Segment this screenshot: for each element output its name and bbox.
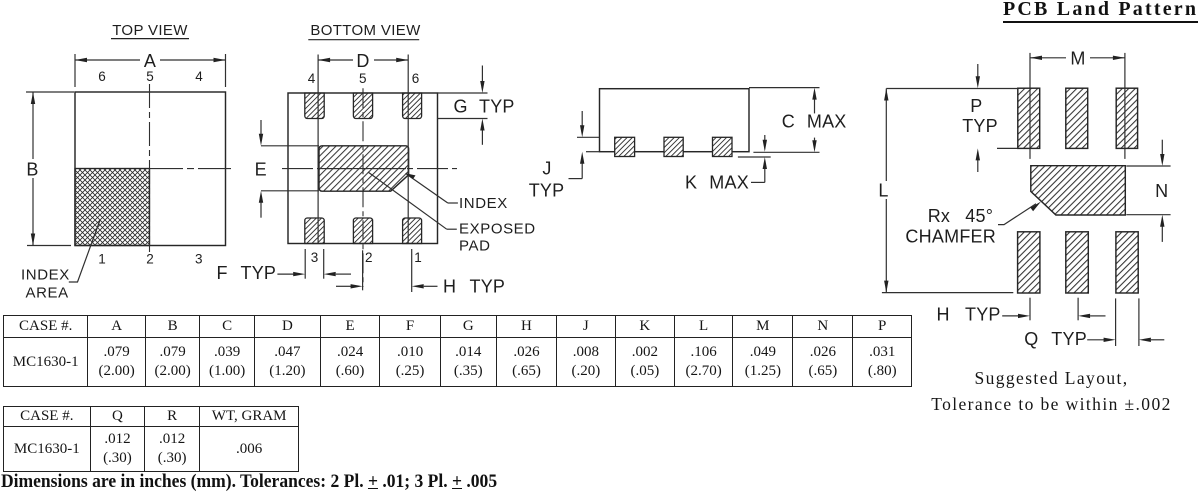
- INDEX leader label: [448, 202, 458, 204]
- dim C arrows: [814, 99, 816, 114]
- dim D arrows: [318, 58, 330, 62]
- svg-text:BOTTOM VIEW: BOTTOM VIEW: [310, 22, 421, 39]
- dim J arrows: [581, 111, 583, 126]
- dim B arrows: [31, 92, 35, 104]
- svg-text:N: N: [1155, 181, 1168, 201]
- svg-text:G: G: [454, 97, 468, 117]
- land top pad 2: [1066, 88, 1088, 148]
- svg-text:TYP: TYP: [1051, 329, 1087, 349]
- side pad 1: [615, 137, 635, 156]
- svg-text:PAD: PAD: [459, 237, 491, 254]
- svg-text:TYP: TYP: [965, 305, 1001, 325]
- svg-text:5: 5: [146, 69, 154, 84]
- svg-text:H: H: [443, 277, 456, 297]
- dim C MAX extension lines: [749, 87, 820, 89]
- dim A extension lines: [74, 54, 76, 87]
- svg-text:J: J: [542, 159, 551, 179]
- exposed pad centerline dash: [322, 168, 406, 170]
- vertical centerline: [362, 88, 364, 287]
- svg-text:INDEX: INDEX: [459, 195, 508, 212]
- dim D extension lines: [317, 55, 319, 244]
- pad 4: [305, 93, 324, 119]
- svg-text:45°: 45°: [965, 206, 993, 226]
- svg-text:M: M: [1070, 49, 1085, 69]
- svg-text:MAX: MAX: [807, 112, 847, 132]
- INDEX AREA leader: [69, 220, 100, 283]
- svg-text:TYP: TYP: [241, 263, 277, 283]
- svg-text:TYP: TYP: [479, 97, 515, 117]
- dim D line: [318, 59, 353, 61]
- svg-text:4: 4: [308, 71, 316, 86]
- pad 2: [353, 218, 372, 244]
- svg-text:C: C: [782, 112, 795, 132]
- svg-text:1: 1: [414, 250, 422, 265]
- dim B extension lines: [26, 91, 74, 93]
- dim B line: [32, 92, 34, 159]
- top view body outline: [75, 92, 226, 246]
- horizontal centerline: [150, 168, 232, 170]
- svg-text:TYP: TYP: [529, 181, 565, 201]
- dim G extension lines: [438, 92, 488, 94]
- exposed pad with chamfer: [319, 146, 409, 191]
- dimensions table 2: [3, 406, 299, 472]
- pad 1: [403, 218, 422, 244]
- svg-text:K: K: [685, 173, 697, 193]
- land bottom pad 1: [1018, 232, 1040, 293]
- side pad 3: [713, 137, 733, 156]
- dim A arrows: [75, 58, 87, 62]
- side pad 2: [664, 137, 683, 156]
- svg-text:H: H: [937, 305, 950, 325]
- svg-text:3: 3: [195, 252, 203, 267]
- side view body outline: [600, 89, 750, 152]
- svg-text:5: 5: [359, 71, 367, 86]
- svg-text:TOP VIEW: TOP VIEW: [112, 22, 188, 39]
- dimensions table 1: [3, 315, 912, 387]
- dim F ticks (pad 3 edges): [304, 249, 306, 279]
- PCB Land Pattern title: [1003, 0, 1198, 23]
- horizontal centerline: [282, 168, 457, 170]
- bottom view body outline: [288, 93, 438, 244]
- svg-text:F: F: [217, 263, 228, 283]
- svg-text:CHAMFER: CHAMFER: [905, 226, 996, 246]
- svg-text:2: 2: [146, 252, 154, 267]
- land top pad 3: [1116, 88, 1137, 148]
- dim E extension lines: [261, 145, 319, 147]
- svg-text:Rx: Rx: [928, 206, 950, 226]
- svg-text:EXPOSED: EXPOSED: [459, 221, 536, 238]
- index area hatch: [75, 169, 150, 246]
- dim A line: [75, 59, 140, 61]
- dim H (land) ticks: [1029, 298, 1031, 321]
- svg-text:E: E: [255, 160, 267, 180]
- dim M line: [1030, 57, 1066, 59]
- pad 3: [305, 218, 324, 244]
- Suggested layout note: [931, 365, 1172, 417]
- chamfer leader: [998, 204, 1036, 225]
- dim M extension lines: [1029, 53, 1031, 159]
- dim L line: [885, 89, 887, 182]
- svg-text:1: 1: [98, 252, 106, 267]
- dim M arrows: [1030, 56, 1042, 60]
- svg-text:AREA: AREA: [26, 285, 69, 302]
- svg-text:MAX: MAX: [709, 173, 749, 193]
- dim K extension line: [738, 156, 771, 158]
- land top pad 1: [1018, 88, 1040, 148]
- svg-text:L: L: [878, 181, 888, 201]
- svg-text:Q: Q: [1024, 329, 1038, 349]
- dim L arrows: [884, 89, 888, 101]
- svg-text:A: A: [144, 51, 156, 71]
- dim E arrows: [260, 120, 262, 135]
- svg-text:TYP: TYP: [470, 277, 506, 297]
- dim N extension lines: [1126, 165, 1170, 167]
- svg-text:P: P: [970, 96, 982, 116]
- svg-text:TYP: TYP: [962, 116, 998, 136]
- svg-text:D: D: [356, 51, 369, 71]
- pad 6: [403, 93, 422, 119]
- svg-text:2: 2: [365, 250, 373, 265]
- svg-text:6: 6: [412, 71, 420, 86]
- EXPOSED PAD leader label: [447, 228, 457, 230]
- pad 5: [353, 93, 372, 119]
- footer tolerance note: [1, 471, 497, 493]
- land bottom pad 3: [1116, 232, 1138, 293]
- svg-text:6: 6: [98, 69, 106, 84]
- dim H ticks (pad centers): [362, 250, 364, 290]
- dim N arrows: [1161, 140, 1163, 155]
- dim Q ticks: [1115, 298, 1117, 346]
- dim P arrows: [977, 64, 979, 77]
- dim P extension line: [997, 147, 1018, 149]
- dim H arrows and label: [336, 285, 352, 287]
- dim G arrows: [481, 66, 483, 83]
- dim L extension lines: [886, 88, 1018, 90]
- land bottom pad 2: [1066, 232, 1089, 293]
- svg-text:INDEX: INDEX: [21, 267, 70, 284]
- dim J extension lines: [577, 136, 600, 138]
- svg-text:3: 3: [311, 250, 319, 265]
- land center pad with chamfer: [1031, 166, 1126, 215]
- svg-text:B: B: [26, 160, 38, 180]
- dim K arrows: [764, 135, 766, 141]
- svg-text:4: 4: [195, 69, 203, 84]
- vertical centerline: [149, 84, 151, 252]
